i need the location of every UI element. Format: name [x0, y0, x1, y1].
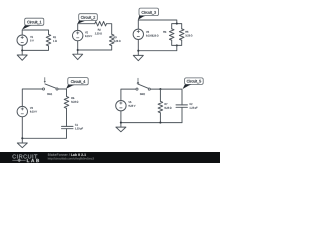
node top junction C3: [176, 23, 178, 25]
capacitor C1: [62, 124, 83, 130]
resistor R5: [179, 29, 192, 40]
label Circuit_3: [138, 8, 159, 20]
ground C4: [17, 143, 27, 148]
wire top-right C5: [150, 89, 182, 105]
node junction ground C5: [120, 122, 122, 124]
footer bar: [0, 152, 220, 163]
voltage source V5: [116, 101, 136, 111]
node junction C1: [21, 49, 23, 51]
footer CircuitLab logo: [12, 154, 39, 162]
footer title text: [48, 153, 86, 155]
wire parallel bottom bar C3: [172, 40, 182, 45]
wire R6 to C1: [66, 108, 68, 126]
wire top-left C5: [121, 89, 136, 100]
label Circuit_2: [77, 14, 97, 24]
ground C2: [73, 54, 83, 59]
wire bottom C5: [121, 111, 182, 127]
label Circuit_5: [183, 78, 204, 89]
node junction C3: [137, 50, 139, 52]
node junction C2: [77, 49, 79, 51]
ground C5: [116, 127, 126, 132]
voltage source V1: [17, 35, 34, 45]
wire top C3: [138, 20, 177, 29]
wire bottom C1: [22, 45, 48, 55]
voltage source V4: [17, 106, 37, 116]
wire bottom C4: [22, 117, 66, 143]
resistor R3: [109, 34, 120, 46]
ground C3: [133, 55, 143, 60]
wire top-left C2: [78, 24, 95, 31]
voltage source V3: [133, 29, 153, 39]
capacitor C2: [176, 103, 197, 122]
wire top C1: [22, 30, 48, 35]
wire parallel top bar C3: [172, 24, 182, 29]
switch SW1: [42, 78, 58, 95]
label Circuit_4: [66, 78, 88, 89]
resistor R6: [64, 96, 78, 108]
node junction C4: [21, 137, 23, 139]
switch SW2: [136, 78, 150, 95]
resistor R2: [95, 21, 107, 34]
ground C1: [17, 55, 27, 60]
wire top-right C4: [58, 89, 67, 96]
wire bottom C3: [138, 40, 177, 56]
wire top-right C2: [107, 24, 112, 35]
node top junction C5: [159, 88, 161, 90]
label Circuit_1: [22, 18, 44, 29]
node bottom junction C3: [176, 44, 178, 46]
resistor R1: [46, 34, 56, 46]
node junction R7 bottom C5: [159, 122, 161, 124]
footer url text: [48, 157, 94, 160]
resistor R4: [152, 29, 174, 40]
wire bottom C2: [78, 41, 112, 54]
wire top-left C4: [22, 89, 42, 106]
resistor R7: [158, 89, 171, 123]
voltage source V2: [73, 30, 92, 40]
